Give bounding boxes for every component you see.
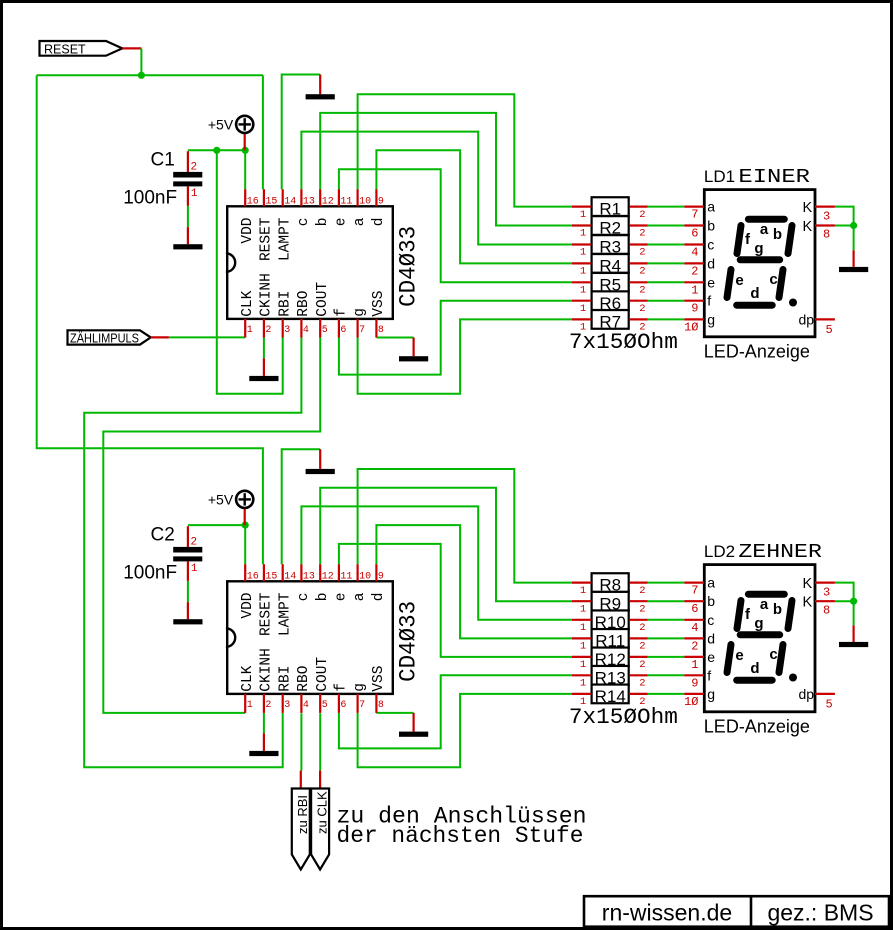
- svg-text:2: 2: [639, 266, 645, 278]
- wire RBI1 to +5V: [217, 150, 283, 393]
- svg-text:g: g: [707, 686, 715, 702]
- svg-text:e: e: [735, 272, 743, 289]
- svg-text:f: f: [334, 683, 350, 692]
- wire segment c2: [301, 506, 684, 619]
- capacitor C1: [123, 150, 202, 209]
- svg-text:CD4Ø33: CD4Ø33: [396, 601, 422, 682]
- supply +5V no.2: [208, 491, 253, 526]
- svg-text:12: 12: [322, 572, 334, 583]
- svg-text:e: e: [735, 647, 743, 664]
- svg-text:7: 7: [691, 584, 698, 598]
- wire VSS1 to ground: [376, 337, 413, 339]
- resistor R12: [572, 648, 648, 672]
- svg-text:4: 4: [691, 621, 698, 635]
- svg-text:c: c: [769, 646, 777, 663]
- wire segment d2: [376, 525, 684, 638]
- svg-text:1: 1: [580, 678, 586, 690]
- note text: [337, 804, 587, 850]
- svg-text:8: 8: [378, 325, 384, 336]
- svg-text:a: a: [352, 592, 368, 601]
- svg-text:1: 1: [247, 700, 253, 711]
- junction RESET: [138, 72, 145, 79]
- svg-text:2: 2: [639, 285, 645, 297]
- wire CKINH2 to ground: [263, 713, 265, 734]
- input flag ZAEHLIMPULS: [68, 330, 169, 345]
- svg-text:16: 16: [247, 572, 259, 583]
- svg-text:K: K: [803, 200, 813, 216]
- svg-text:1Ø: 1Ø: [684, 320, 698, 334]
- svg-text:EINER: EINER: [738, 166, 810, 188]
- svg-text:g: g: [754, 615, 763, 632]
- ground CKINH1: [249, 358, 278, 381]
- svg-text:g: g: [352, 308, 368, 317]
- svg-text:COUT: COUT: [315, 657, 331, 692]
- capacitor C2: [123, 525, 202, 584]
- svg-text:RBO: RBO: [296, 291, 312, 317]
- svg-text:e: e: [707, 649, 715, 665]
- svg-text:c: c: [296, 593, 312, 602]
- svg-text:b: b: [315, 593, 331, 602]
- svg-text:der nächsten Stufe: der nächsten Stufe: [337, 823, 584, 849]
- input flag RESET: [40, 41, 142, 57]
- svg-text:1: 1: [580, 209, 586, 221]
- wire segment f2: [339, 675, 684, 748]
- label 7x150Ohm no.2: [569, 704, 678, 730]
- svg-text:1: 1: [580, 303, 586, 315]
- svg-text:2: 2: [191, 536, 198, 548]
- wire RBO2 to flag: [300, 713, 302, 770]
- svg-text:11: 11: [340, 572, 352, 583]
- wire segment f1: [339, 301, 684, 375]
- svg-text:b: b: [773, 226, 782, 243]
- svg-text:3: 3: [823, 209, 830, 223]
- LED display LD1: [684, 166, 835, 361]
- svg-text:2: 2: [265, 325, 271, 336]
- svg-text:4: 4: [303, 700, 309, 711]
- svg-text:d: d: [750, 660, 759, 677]
- svg-text:a: a: [707, 575, 715, 591]
- svg-text:g: g: [707, 311, 715, 327]
- svg-text:13: 13: [303, 197, 315, 208]
- svg-text:4: 4: [691, 246, 698, 260]
- svg-text:2: 2: [191, 161, 198, 173]
- resistor R5: [572, 273, 648, 297]
- resistor R1: [572, 197, 648, 221]
- wire RBO1 to RBI2: [84, 338, 301, 768]
- svg-text:VSS: VSS: [371, 291, 387, 317]
- wire LAMPT1 to ground: [282, 75, 321, 190]
- svg-text:3: 3: [284, 325, 290, 336]
- wire C2 to ground: [187, 581, 189, 602]
- svg-text:1: 1: [691, 283, 698, 297]
- svg-text:1: 1: [580, 659, 586, 671]
- LED display LD2: [684, 541, 835, 736]
- svg-text:2: 2: [691, 639, 698, 653]
- svg-text:LED-Anzeige: LED-Anzeige: [704, 717, 810, 737]
- svg-text:2: 2: [265, 700, 271, 711]
- svg-text:b: b: [315, 218, 331, 227]
- svg-text:d: d: [371, 218, 387, 227]
- svg-text:RESET: RESET: [259, 592, 275, 636]
- ground C1: [173, 227, 202, 249]
- svg-text:100nF: 100nF: [123, 562, 177, 583]
- IC IC1 CD4033: [226, 189, 422, 337]
- svg-text:10: 10: [359, 572, 371, 583]
- svg-text:RBI: RBI: [277, 291, 293, 317]
- svg-text:1: 1: [580, 247, 586, 259]
- svg-text:g: g: [754, 240, 763, 257]
- svg-text:1: 1: [191, 563, 198, 575]
- resistor R7: [572, 310, 648, 334]
- wire LAMPT2 to ground: [282, 449, 321, 564]
- svg-text:4: 4: [303, 325, 309, 336]
- svg-text:RESET: RESET: [259, 217, 275, 261]
- ground VSS2: [399, 713, 428, 737]
- svg-text:K: K: [803, 576, 813, 592]
- svg-text:7x15ØOhm: 7x15ØOhm: [569, 329, 678, 355]
- wire segment e1: [339, 169, 684, 282]
- svg-text:LED-Anzeige: LED-Anzeige: [704, 342, 810, 362]
- svg-text:f: f: [707, 667, 711, 683]
- svg-text:9: 9: [691, 676, 698, 690]
- svg-text:1: 1: [580, 285, 586, 297]
- svg-text:CD4Ø33: CD4Ø33: [396, 226, 422, 307]
- svg-text:12: 12: [322, 197, 334, 208]
- svg-text:1: 1: [580, 622, 586, 634]
- svg-text:d: d: [750, 285, 759, 302]
- svg-text:1: 1: [691, 658, 698, 672]
- svg-text:f: f: [707, 293, 711, 309]
- svg-text:K: K: [803, 219, 813, 235]
- svg-text:a: a: [760, 596, 769, 613]
- svg-text:8: 8: [378, 700, 384, 711]
- svg-text:b: b: [773, 601, 782, 618]
- wire CKINH1 to ground: [263, 338, 265, 359]
- svg-text:c: c: [707, 612, 714, 628]
- resistor R11: [572, 629, 648, 653]
- svg-text:VDD: VDD: [240, 218, 256, 244]
- svg-text:2: 2: [639, 247, 645, 259]
- resistor R2: [572, 216, 648, 240]
- resistor R14: [572, 685, 648, 709]
- IC IC2 CD4033: [226, 564, 422, 713]
- svg-text:d: d: [371, 593, 387, 602]
- svg-text:2: 2: [639, 678, 645, 690]
- svg-text:RBO: RBO: [296, 666, 312, 692]
- svg-text:2: 2: [639, 209, 645, 221]
- svg-text:8: 8: [823, 603, 830, 617]
- svg-text:LAMPT: LAMPT: [277, 217, 293, 261]
- label 7x150Ohm no.1: [569, 329, 678, 355]
- svg-text:9: 9: [378, 572, 384, 583]
- wire VSS2 to ground: [376, 712, 413, 714]
- wire segment g1: [358, 319, 685, 393]
- svg-text:8: 8: [823, 228, 830, 242]
- svg-text:2: 2: [691, 264, 698, 278]
- svg-text:LD1: LD1: [704, 167, 735, 186]
- ground LAMPT1: [306, 75, 335, 100]
- svg-text:6: 6: [340, 325, 346, 336]
- wire cathode K LD2: [835, 583, 854, 626]
- svg-text:f: f: [334, 308, 350, 317]
- ground K1: [839, 250, 868, 272]
- wire segment g2: [358, 694, 685, 767]
- svg-text:6: 6: [340, 700, 346, 711]
- svg-text:1: 1: [580, 585, 586, 597]
- junction K1: [850, 222, 857, 229]
- svg-text:LD2: LD2: [704, 542, 735, 561]
- svg-text:1: 1: [580, 266, 586, 278]
- svg-text:3: 3: [823, 585, 830, 599]
- resistor R4: [572, 254, 648, 278]
- ground VSS1: [399, 338, 428, 362]
- svg-text:5: 5: [322, 325, 328, 336]
- svg-text:CKINH: CKINH: [259, 648, 275, 692]
- svg-text:1: 1: [580, 228, 586, 240]
- wire C1 to ground: [187, 206, 189, 227]
- svg-text:7: 7: [691, 208, 698, 222]
- svg-text:2: 2: [639, 303, 645, 315]
- svg-text:9: 9: [691, 302, 698, 316]
- svg-text:+5V: +5V: [208, 116, 234, 132]
- svg-text:gez.: BMS: gez.: BMS: [767, 900, 873, 926]
- svg-text:1: 1: [580, 641, 586, 653]
- supply +5V no.1: [208, 116, 253, 151]
- svg-text:K: K: [803, 595, 813, 611]
- svg-text:d: d: [707, 630, 715, 646]
- wire RESET net: [37, 48, 263, 564]
- svg-text:6: 6: [691, 227, 698, 241]
- svg-text:1Ø: 1Ø: [684, 695, 698, 709]
- svg-text:2: 2: [639, 228, 645, 240]
- wire segment a2: [358, 469, 685, 583]
- output flag zu CLK: [311, 771, 329, 870]
- svg-text:7: 7: [359, 700, 365, 711]
- svg-text:11: 11: [340, 197, 352, 208]
- svg-text:LAMPT: LAMPT: [277, 592, 293, 636]
- svg-text:13: 13: [303, 572, 315, 583]
- svg-text:15: 15: [265, 197, 277, 208]
- wire segment b2: [320, 488, 684, 602]
- svg-text:2: 2: [639, 603, 645, 615]
- svg-text:d: d: [707, 255, 715, 271]
- output flag zu RBI: [292, 771, 310, 870]
- svg-text:b: b: [707, 593, 715, 609]
- wire segment e2: [339, 544, 684, 657]
- wire segment b1: [320, 113, 684, 226]
- resistor R9: [572, 592, 648, 616]
- svg-text:5: 5: [322, 700, 328, 711]
- wire segment c1: [301, 132, 684, 245]
- junction +5V-1b: [242, 147, 249, 154]
- svg-text:2: 2: [639, 585, 645, 597]
- svg-text:3: 3: [284, 700, 290, 711]
- svg-text:9: 9: [378, 197, 384, 208]
- svg-text:a: a: [760, 221, 769, 238]
- wire COUT1 to CLK2: [103, 338, 320, 713]
- resistor R13: [572, 666, 648, 690]
- svg-text:e: e: [334, 218, 350, 227]
- ground C2: [173, 602, 202, 624]
- svg-text:7: 7: [359, 325, 365, 336]
- svg-text:2: 2: [639, 641, 645, 653]
- svg-text:6: 6: [691, 602, 698, 616]
- svg-text:e: e: [334, 593, 350, 602]
- resistor R6: [572, 291, 648, 315]
- svg-text:CLK: CLK: [240, 665, 256, 691]
- svg-text:ZEHNER: ZEHNER: [738, 541, 822, 563]
- svg-text:2: 2: [639, 622, 645, 634]
- resistor R10: [572, 610, 648, 634]
- junction K2: [850, 598, 857, 605]
- svg-text:15: 15: [265, 572, 277, 583]
- svg-text:dp: dp: [799, 311, 815, 327]
- svg-text:COUT: COUT: [315, 282, 331, 317]
- svg-text:10: 10: [359, 197, 371, 208]
- svg-text:RESET: RESET: [44, 43, 86, 57]
- wire ZAEHLIMPULS to CLK1: [169, 336, 245, 338]
- wire +5V net 1: [188, 150, 245, 189]
- resistor R3: [572, 235, 648, 259]
- svg-text:a: a: [352, 217, 368, 226]
- svg-text:14: 14: [284, 197, 296, 208]
- svg-text:zu CLK: zu CLK: [314, 791, 329, 834]
- svg-text:rn-wissen.de: rn-wissen.de: [602, 900, 732, 926]
- wire cathode K LD1: [835, 207, 854, 251]
- svg-text:c: c: [296, 218, 312, 227]
- svg-text:100nF: 100nF: [123, 187, 177, 208]
- junction +5V-1a: [213, 147, 220, 154]
- svg-text:VDD: VDD: [240, 593, 256, 619]
- title block: [584, 896, 889, 927]
- resistor R8: [572, 573, 648, 597]
- svg-text:CLK: CLK: [240, 290, 256, 316]
- svg-text:5: 5: [826, 323, 833, 337]
- svg-text:zu RBI: zu RBI: [295, 795, 310, 834]
- junction +5V-2: [242, 522, 249, 529]
- svg-text:c: c: [707, 237, 714, 253]
- ground CKINH2: [249, 733, 278, 756]
- svg-text:1: 1: [580, 603, 586, 615]
- svg-text:a: a: [707, 199, 715, 215]
- svg-text:dp: dp: [799, 686, 815, 702]
- svg-text:1: 1: [247, 325, 253, 336]
- svg-text:1: 1: [191, 188, 198, 200]
- wire segment d1: [376, 150, 684, 263]
- svg-text:2: 2: [639, 659, 645, 671]
- svg-text:5: 5: [826, 697, 833, 711]
- svg-text:b: b: [707, 218, 715, 234]
- ground K2: [839, 625, 868, 647]
- wire +5V net 2: [188, 525, 245, 564]
- wire COUT2 to flag: [319, 713, 321, 770]
- svg-text:C1: C1: [151, 150, 175, 171]
- wire segment a1: [358, 94, 685, 206]
- svg-text:c: c: [769, 271, 777, 288]
- svg-text:RBI: RBI: [277, 666, 293, 692]
- svg-text:C2: C2: [151, 525, 175, 546]
- svg-text:+5V: +5V: [208, 491, 234, 507]
- svg-text:g: g: [352, 683, 368, 692]
- svg-text:ZÄHLIMPULS: ZÄHLIMPULS: [70, 331, 139, 345]
- svg-text:14: 14: [284, 572, 296, 583]
- svg-text:7x15ØOhm: 7x15ØOhm: [569, 704, 678, 730]
- svg-text:e: e: [707, 274, 715, 290]
- svg-text:CKINH: CKINH: [259, 273, 275, 317]
- svg-text:16: 16: [247, 197, 259, 208]
- ground LAMPT2: [306, 449, 335, 474]
- svg-text:VSS: VSS: [371, 666, 387, 692]
